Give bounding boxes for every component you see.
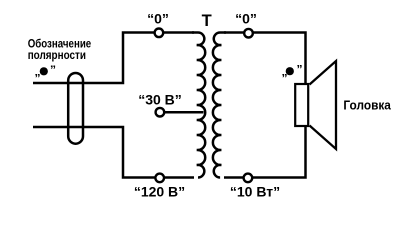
svg-text:“0”: “0” <box>147 11 169 27</box>
wire tap 30V <box>160 111 204 114</box>
speaker body rect <box>295 84 308 126</box>
connector plug (stadium) <box>68 73 83 144</box>
svg-text:”: ” <box>297 63 303 77</box>
svg-text:Головка: Головка <box>343 97 391 112</box>
terminal 0 primary <box>155 29 164 38</box>
svg-text:„: „ <box>35 65 41 79</box>
svg-text:„: „ <box>282 65 288 79</box>
transformer T secondary winding <box>213 32 226 177</box>
svg-text:полярности: полярности <box>28 48 86 62</box>
wire top rail right to speaker <box>224 33 306 84</box>
polarity dot right (speaker +) <box>286 67 294 75</box>
svg-text:“10 Вт”: “10 Вт” <box>230 183 280 199</box>
wire top-left input to top rail <box>33 33 194 84</box>
wire bottom rail right to speaker <box>224 127 306 178</box>
terminal 30V tap <box>156 108 165 117</box>
svg-text:Т: Т <box>202 12 212 30</box>
svg-text:”: ” <box>50 63 56 77</box>
terminal 0 secondary <box>244 29 253 38</box>
svg-text:“30 В”: “30 В” <box>138 92 182 108</box>
speaker horn <box>310 61 337 149</box>
transformer T primary winding <box>192 32 205 177</box>
svg-text:“120 В”: “120 В” <box>134 183 185 199</box>
polarity dot left <box>40 67 48 75</box>
terminal 120V <box>155 174 164 183</box>
terminal 10W <box>244 174 253 183</box>
svg-text:“0”: “0” <box>235 11 257 27</box>
wire bottom-left input to bottom rail <box>33 127 194 178</box>
